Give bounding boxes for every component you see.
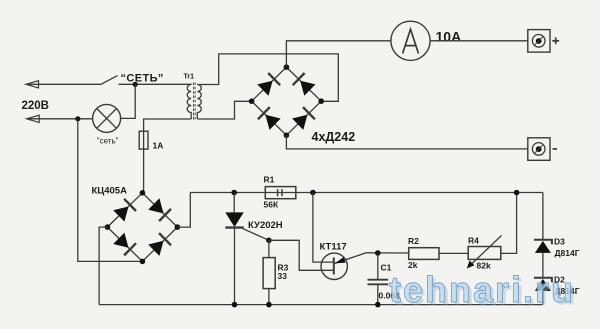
wire: mains bottom junction down to small bridge bottom — [78, 119, 143, 262]
zener diode D3 — [534, 240, 552, 278]
wire: rail corner down to D3 — [542, 193, 544, 240]
svg-text:Д814Г: Д814Г — [555, 248, 580, 258]
diode big TR — [293, 73, 316, 96]
wire: ammeter to plus terminal — [430, 40, 528, 42]
ammeter PA — [391, 21, 430, 60]
lamp HL "сеть" — [93, 104, 121, 132]
terminal plus — [528, 30, 550, 52]
node: C1 top junction — [375, 250, 381, 256]
resistor R3 — [263, 240, 275, 304]
wire: bridge bottom to minus terminal — [286, 135, 527, 149]
diode small BL — [113, 233, 136, 256]
node: small bridge top — [140, 190, 146, 196]
wire: fuse bottom to small bridge top — [143, 149, 145, 193]
wire: lamp right to switch junction — [121, 84, 136, 118]
node: bridge top — [284, 64, 290, 70]
svg-text:"сеть": "сеть" — [97, 137, 119, 146]
svg-text:“СЕТЬ”: “СЕТЬ” — [121, 73, 164, 85]
node: bridge bottom — [284, 133, 290, 139]
label - — [553, 148, 558, 150]
mains input arrow bottom — [27, 115, 93, 122]
node: bridge right — [318, 98, 324, 104]
diode small TL — [113, 199, 136, 222]
svg-text:tehnari.ru: tehnari.ru — [389, 269, 575, 310]
node: thyristor anode on rail — [231, 190, 237, 196]
node: small bridge right — [175, 224, 181, 230]
diode small BR — [148, 233, 171, 256]
node: R1 right / base2 junction — [310, 190, 316, 196]
svg-text:R4: R4 — [468, 236, 479, 246]
wire: small bridge left node to bottom rail — [99, 227, 107, 305]
wire: R2 to R4 — [439, 252, 468, 254]
label + — [552, 37, 559, 44]
node: gate junction — [266, 238, 272, 244]
transistor КТ117 — [321, 253, 366, 280]
svg-text:КТ117: КТ117 — [320, 242, 347, 253]
fuse FU 1A — [139, 131, 148, 149]
wire: primary bottom to fuse top — [144, 119, 192, 131]
wire: bottom rail — [99, 304, 543, 306]
resistor R2 — [409, 248, 439, 260]
wire: middle rail — [190, 192, 543, 194]
wire: small bridge right node to middle rail — [177, 193, 190, 228]
node: C1 bottom on rail — [375, 302, 381, 308]
wire: secondary bottom to big bridge left node — [197, 101, 251, 119]
thyristor КУ202Н — [225, 193, 269, 305]
node: R3 bottom on rail — [266, 302, 272, 308]
svg-text:10А: 10А — [436, 28, 462, 44]
bridge rectifier 4хД242 — [252, 67, 322, 135]
node: mains bottom junction — [75, 116, 80, 121]
wire: base2 from rail junction — [313, 193, 334, 263]
node: small bridge left — [105, 224, 111, 230]
svg-text:33: 33 — [278, 271, 288, 281]
diode big BR — [292, 107, 315, 130]
switch SA "СЕТЬ" — [101, 76, 192, 85]
wire: base1 from gate junction — [269, 240, 334, 270]
wire: bridge top to ammeter — [286, 41, 391, 67]
wire: emitter to C1 junction — [366, 252, 409, 254]
resistor R1 — [265, 187, 296, 199]
wire: secondary top to big bridge right node — [197, 54, 338, 101]
svg-text:Tr1: Tr1 — [184, 74, 195, 81]
capacitor C1 — [368, 253, 389, 305]
node: R4 on rail — [514, 190, 520, 196]
transformer Tr1 — [187, 83, 201, 121]
node: switch/lamp junction — [133, 82, 138, 87]
svg-text:R1: R1 — [264, 175, 275, 185]
node: small bridge bottom — [140, 259, 146, 265]
mains input arrow top — [26, 81, 101, 88]
node: bridge left — [249, 98, 255, 104]
zener diode D2 — [534, 278, 552, 305]
svg-text:D3: D3 — [554, 237, 565, 247]
diode big BL — [258, 107, 281, 130]
svg-text:КЦ405А: КЦ405А — [92, 186, 128, 197]
svg-text:КУ202Н: КУ202Н — [248, 220, 283, 231]
svg-text:1А: 1А — [153, 141, 164, 151]
variable resistor R4 — [467, 236, 502, 269]
node: thyristor cathode on bottom rail — [232, 302, 238, 308]
svg-text:4хД242: 4хД242 — [312, 130, 356, 144]
svg-text:220В: 220В — [22, 100, 50, 112]
diode small TR — [148, 198, 171, 221]
bridge rectifier КЦ405А — [107, 193, 177, 262]
diode big TL — [257, 73, 280, 96]
svg-text:R2: R2 — [408, 236, 419, 246]
terminal minus — [528, 138, 550, 161]
wire: R4 to rail — [501, 193, 517, 254]
watermark tehnari.ru — [389, 269, 578, 313]
svg-text:56К: 56К — [264, 200, 279, 210]
